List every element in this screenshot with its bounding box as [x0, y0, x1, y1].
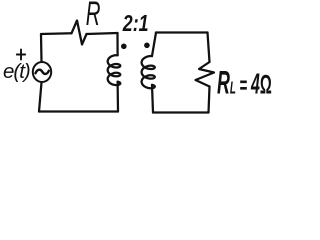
resistor R zigzag	[72, 21, 87, 45]
wire: left-loop top wire left segment	[41, 33, 72, 34]
svg-text:2:1: 2:1	[122, 11, 149, 37]
plus polarity sign of source	[17, 50, 25, 60]
wire: right wire upper lead	[208, 33, 210, 63]
svg-text:RL = 4Ω: RL = 4Ω	[217, 64, 272, 101]
inductor: transformer secondary winding L2	[142, 56, 155, 88]
svg-text:R: R	[86, 0, 101, 32]
wire: left-loop bottom wire	[39, 110, 118, 112]
wire: primary winding top lead	[116, 33, 118, 55]
source e(t) circle	[33, 62, 51, 82]
wire: left-loop left wire lower segment	[39, 83, 42, 112]
svg-text:e(t): e(t)	[3, 60, 30, 83]
wire: right wire lower lead	[209, 87, 210, 113]
inductor: transformer primary winding L1	[108, 55, 121, 85]
wire: secondary winding top lead	[152, 33, 156, 57]
wire: left-loop top wire right segment	[87, 33, 118, 34]
wire: right-loop bottom wire	[153, 111, 209, 113]
polarity dot secondary	[144, 43, 150, 49]
resistor RL zigzag	[196, 62, 215, 87]
wire: right-loop top wire	[156, 31, 208, 33]
sine tilde inside source	[36, 70, 49, 74]
polarity dot primary	[121, 44, 127, 50]
wire: secondary winding bottom lead	[152, 85, 153, 113]
wire: primary winding bottom lead	[116, 82, 119, 112]
wire: left-loop left wire upper segment	[40, 35, 43, 63]
